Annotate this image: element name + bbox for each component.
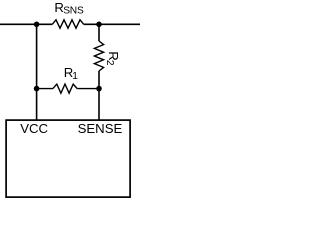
wire R1 left stub xyxy=(37,88,53,90)
node junction top-right xyxy=(96,22,102,28)
svg-text:2: 2 xyxy=(104,60,115,66)
label RSNS xyxy=(54,0,84,17)
IC box U1 xyxy=(6,120,130,197)
svg-text:SNS: SNS xyxy=(63,6,84,17)
wire top rail right segment xyxy=(84,23,140,25)
label R1 xyxy=(64,65,79,82)
resistor RSNS body xyxy=(52,20,83,28)
node junction top-left xyxy=(34,22,40,28)
wire top rail left segment xyxy=(0,23,52,25)
node junction R1 right / SENSE xyxy=(96,86,102,92)
wire R2 top stub xyxy=(98,24,100,41)
svg-text:SENSE: SENSE xyxy=(78,121,123,136)
node junction R1 left xyxy=(34,86,40,92)
svg-text:VCC: VCC xyxy=(20,121,48,136)
resistor R1 body xyxy=(53,84,77,93)
wire R2 bottom stub xyxy=(98,71,100,121)
svg-text:1: 1 xyxy=(72,71,78,82)
label R2 xyxy=(104,51,121,66)
wire left vertical VCC branch xyxy=(36,24,38,120)
resistor R2 body xyxy=(94,41,103,71)
wire R1 right stub xyxy=(77,88,99,90)
